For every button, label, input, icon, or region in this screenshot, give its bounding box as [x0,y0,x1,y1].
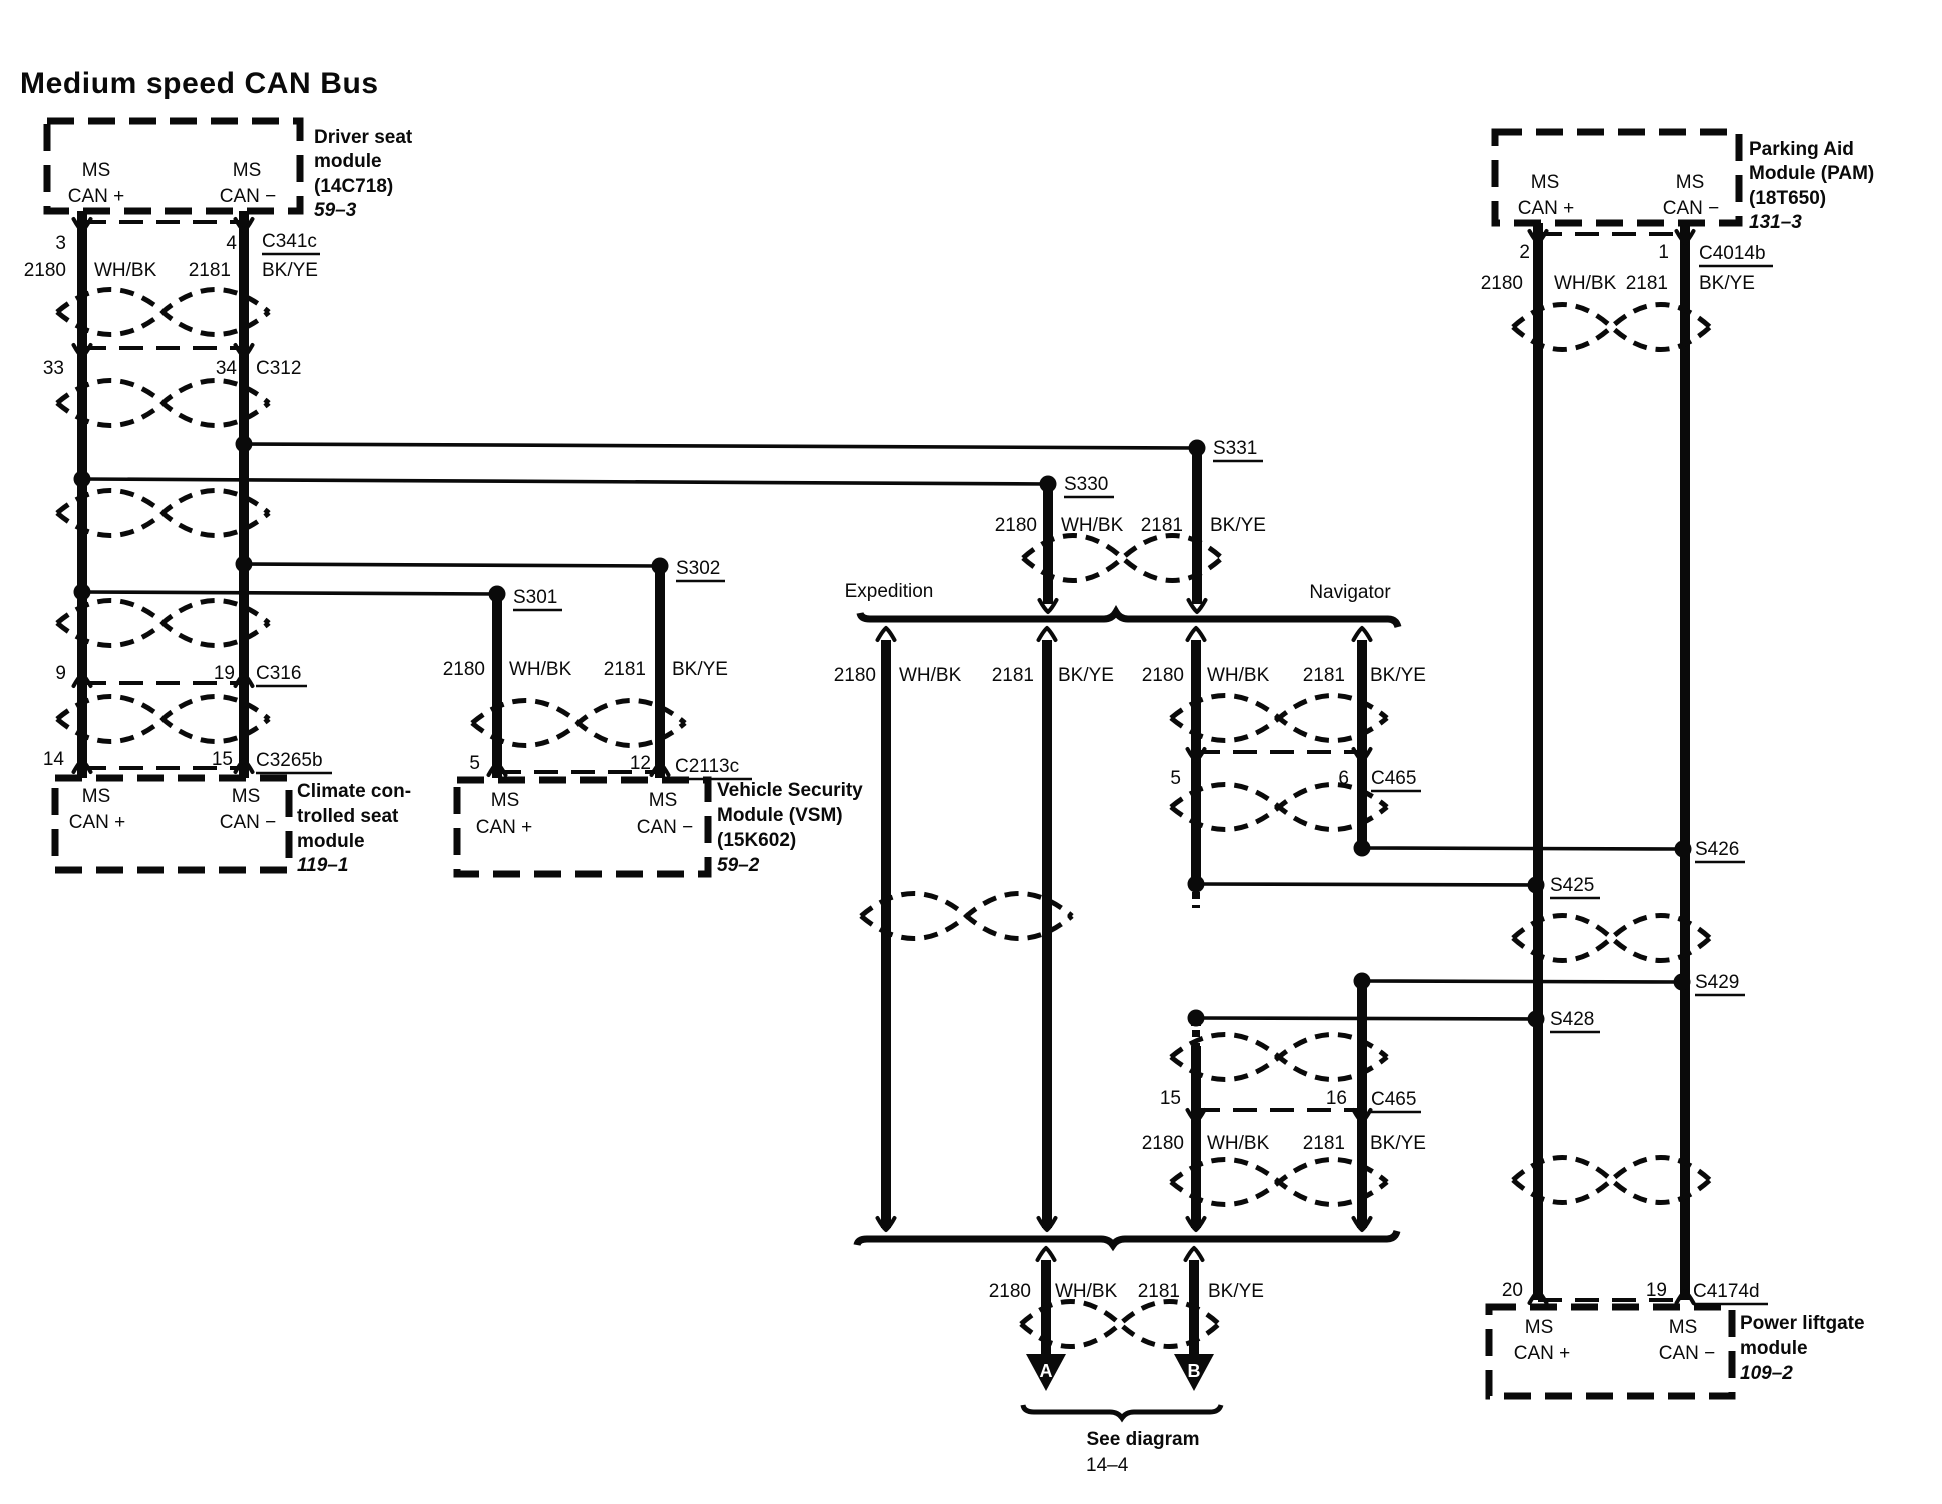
svg-text:4: 4 [226,233,237,254]
svg-text:Module (VSM): Module (VSM) [717,805,843,826]
svg-text:1: 1 [1658,242,1669,263]
svg-text:S425: S425 [1550,875,1594,896]
svg-text:131–3: 131–3 [1749,212,1802,233]
svg-text:CAN +: CAN + [1514,1343,1571,1364]
svg-text:C316: C316 [256,663,301,684]
svg-text:33: 33 [43,358,64,379]
svg-text:C312: C312 [256,358,301,379]
svg-text:CAN −: CAN − [1663,198,1720,219]
svg-text:S426: S426 [1695,839,1739,860]
svg-text:CAN −: CAN − [637,817,694,838]
svg-text:BK/YE: BK/YE [1370,665,1426,686]
svg-text:WH/BK: WH/BK [509,659,572,680]
svg-text:14: 14 [43,749,65,770]
svg-text:MS: MS [649,790,678,811]
svg-text:MS: MS [1669,1317,1698,1338]
svg-text:B: B [1188,1361,1201,1381]
svg-text:WH/BK: WH/BK [1055,1281,1118,1302]
svg-text:WH/BK: WH/BK [1554,273,1617,294]
svg-text:trolled seat: trolled seat [297,806,399,827]
svg-text:WH/BK: WH/BK [899,665,962,686]
svg-text:MS: MS [233,160,262,181]
svg-text:2180: 2180 [1481,273,1523,294]
svg-text:Module (PAM): Module (PAM) [1749,163,1874,184]
svg-text:9: 9 [55,663,66,684]
svg-text:CAN −: CAN − [220,186,277,207]
svg-text:MS: MS [232,786,261,807]
svg-text:119–1: 119–1 [297,855,348,876]
svg-text:CAN +: CAN + [68,186,125,207]
svg-text:19: 19 [214,663,235,684]
svg-text:module: module [1740,1338,1808,1359]
svg-text:2181: 2181 [1138,1281,1180,1302]
svg-text:2180: 2180 [989,1281,1031,1302]
svg-text:BK/YE: BK/YE [1699,273,1755,294]
svg-text:CAN +: CAN + [1518,198,1575,219]
svg-text:CAN +: CAN + [69,812,126,833]
svg-text:5: 5 [469,753,480,774]
svg-text:2181: 2181 [1141,515,1183,536]
svg-text:See diagram: See diagram [1087,1429,1200,1450]
svg-text:15: 15 [1160,1088,1181,1109]
svg-text:Climate con-: Climate con- [297,781,411,802]
svg-text:2180: 2180 [834,665,876,686]
svg-text:S428: S428 [1550,1009,1594,1030]
svg-text:S302: S302 [676,558,720,579]
svg-text:2181: 2181 [992,665,1034,686]
svg-text:Medium speed CAN Bus: Medium speed CAN Bus [20,67,379,100]
svg-text:MS: MS [1525,1317,1554,1338]
svg-text:module: module [297,831,365,852]
svg-text:(18T650): (18T650) [1749,188,1826,209]
svg-text:C465: C465 [1371,1089,1416,1110]
svg-text:MS: MS [82,786,111,807]
svg-text:Vehicle Security: Vehicle Security [717,780,863,801]
svg-text:(15K602): (15K602) [717,830,796,851]
svg-text:C4174d: C4174d [1693,1281,1760,1302]
svg-text:14–4: 14–4 [1086,1455,1129,1476]
svg-text:MS: MS [1531,172,1560,193]
svg-text:Parking Aid: Parking Aid [1749,139,1854,160]
svg-text:C2113c: C2113c [675,756,739,777]
svg-text:34: 34 [216,358,238,379]
svg-text:BK/YE: BK/YE [1208,1281,1264,1302]
svg-text:Expedition: Expedition [845,581,934,602]
svg-text:WH/BK: WH/BK [1207,1133,1270,1154]
svg-text:S429: S429 [1695,972,1739,993]
svg-text:(14C718): (14C718) [314,176,393,197]
svg-text:MS: MS [82,160,111,181]
svg-text:S301: S301 [513,587,557,608]
svg-text:Driver seat: Driver seat [314,127,413,148]
svg-text:2181: 2181 [1303,1133,1345,1154]
svg-text:5: 5 [1170,768,1181,789]
svg-text:S330: S330 [1064,474,1108,495]
svg-text:2181: 2181 [1303,665,1345,686]
svg-text:2181: 2181 [1626,273,1668,294]
svg-text:A: A [1040,1361,1053,1381]
svg-text:2180: 2180 [24,260,66,281]
svg-text:109–2: 109–2 [1740,1363,1793,1384]
svg-text:2: 2 [1519,242,1530,263]
svg-text:WH/BK: WH/BK [94,260,157,281]
svg-text:CAN +: CAN + [476,817,533,838]
svg-text:C465: C465 [1371,768,1416,789]
svg-text:BK/YE: BK/YE [1370,1133,1426,1154]
svg-text:59–3: 59–3 [314,200,357,221]
svg-text:MS: MS [491,790,520,811]
svg-text:16: 16 [1326,1088,1347,1109]
svg-text:2181: 2181 [604,659,646,680]
svg-text:BK/YE: BK/YE [672,659,728,680]
svg-text:BK/YE: BK/YE [1058,665,1114,686]
svg-text:2180: 2180 [1142,665,1184,686]
svg-text:Navigator: Navigator [1309,582,1391,603]
svg-text:CAN −: CAN − [220,812,277,833]
svg-text:C341c: C341c [262,231,317,252]
svg-text:S331: S331 [1213,438,1257,459]
svg-text:Power liftgate: Power liftgate [1740,1313,1865,1334]
svg-text:C3265b: C3265b [256,750,323,771]
svg-text:59–2: 59–2 [717,855,760,876]
svg-text:2180: 2180 [443,659,485,680]
svg-text:CAN −: CAN − [1659,1343,1716,1364]
svg-text:WH/BK: WH/BK [1061,515,1124,536]
svg-text:module: module [314,151,382,172]
svg-text:19: 19 [1646,1280,1667,1301]
svg-text:BK/YE: BK/YE [262,260,318,281]
svg-text:3: 3 [55,233,66,254]
svg-text:BK/YE: BK/YE [1210,515,1266,536]
svg-text:WH/BK: WH/BK [1207,665,1270,686]
svg-text:2181: 2181 [189,260,231,281]
svg-text:C4014b: C4014b [1699,243,1766,264]
svg-text:2180: 2180 [1142,1133,1184,1154]
svg-text:MS: MS [1676,172,1705,193]
svg-text:20: 20 [1502,1280,1523,1301]
svg-text:2180: 2180 [995,515,1037,536]
